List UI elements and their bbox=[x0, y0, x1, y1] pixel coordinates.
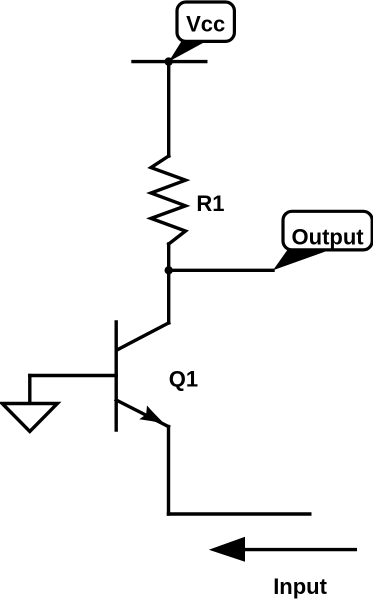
svg-text:R1: R1 bbox=[196, 191, 224, 216]
svg-text:Q1: Q1 bbox=[169, 367, 198, 392]
svg-text:Input: Input bbox=[273, 574, 327, 599]
svg-text:Output: Output bbox=[292, 225, 365, 250]
svg-text:Vcc: Vcc bbox=[186, 11, 225, 36]
